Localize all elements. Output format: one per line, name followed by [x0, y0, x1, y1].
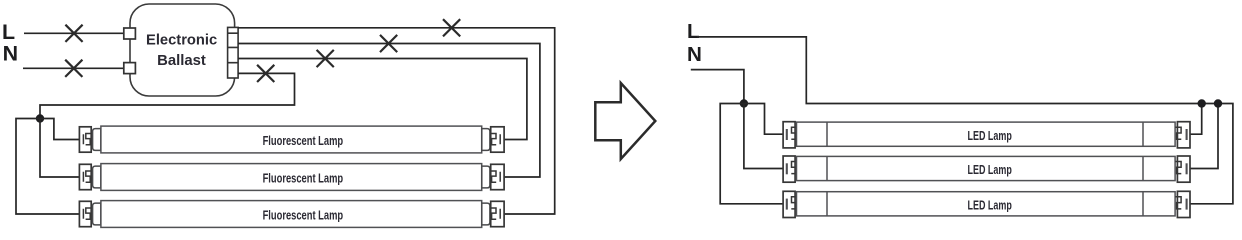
svg-text:L: L [2, 20, 15, 44]
LED lamp1 tube [797, 122, 1176, 146]
LED lamp3 left socket [783, 191, 795, 217]
lamp1 tube [101, 126, 482, 153]
svg-text:Ballast: Ballast [157, 53, 206, 69]
conversion arrow [595, 83, 655, 159]
wire L to ballast [24, 32, 124, 34]
LED lamp 2 [783, 156, 1190, 182]
wire ballast pin4 down and left to junction [40, 73, 295, 118]
wire N bus to LED lamp3 left socket [720, 104, 783, 204]
LED lamp1 left socket [783, 122, 795, 148]
wire junction to lamp2 left socket [40, 119, 79, 178]
lamp3 left socket [79, 201, 91, 226]
lamp2 left socket [79, 164, 91, 189]
ballast U1 (Electronic Ballast box) [130, 4, 235, 96]
wire N bus to LED lamp2 left socket [744, 104, 783, 169]
svg-text:N: N [3, 42, 18, 66]
lamp1 left socket [79, 127, 91, 152]
svg-text:LED Lamp: LED Lamp [968, 198, 1012, 213]
fluorescent lamp 2 [79, 164, 504, 191]
ballast label text [146, 33, 217, 70]
ballast input pin N [124, 63, 136, 74]
svg-text:Electronic: Electronic [146, 33, 217, 49]
cut mark X on pin1 wire [443, 19, 460, 36]
wire junction to lamp1 left socket [40, 119, 79, 140]
lamp3 right socket [491, 201, 504, 226]
junction node dot (N bus) [740, 99, 748, 107]
junction node dot lamp1/L bus [1198, 99, 1206, 107]
lamp3 tube [101, 201, 482, 228]
LED lamp2 right socket [1177, 156, 1190, 182]
LED lamp1 left cap line [826, 122, 828, 146]
junction node dot lamp2/L bus [1214, 99, 1222, 107]
wire L line to LED lamp3 right socket [697, 37, 1233, 204]
LED lamp1 right cap line [1142, 122, 1144, 146]
ballast input pin L [124, 28, 136, 39]
LED lamp2 tube [797, 156, 1176, 180]
wire ballast pin3 to lamp1 right socket [238, 59, 527, 140]
lamp2 tube [101, 164, 482, 191]
LED lamp2 left cap line [826, 156, 828, 180]
ballast output pin block (4 pins) [228, 27, 239, 78]
svg-text:N: N [687, 43, 702, 66]
LED lamp2 left socket [783, 156, 795, 182]
LED lamp3 right socket [1177, 191, 1190, 217]
wire ballast pin1 to lamp3 right socket [238, 28, 555, 214]
wire ballast pin2 to lamp2 right socket [238, 44, 540, 178]
wire N line down to junction [691, 70, 744, 104]
cut mark X on pin2 wire [380, 35, 397, 52]
LED lamp3 right cap line [1142, 192, 1144, 216]
LED lamp 1 [783, 122, 1190, 148]
lamp1 right socket [491, 127, 504, 152]
junction node dot (left diagram) [36, 114, 44, 122]
lamp1 left end cap [93, 129, 101, 151]
LED lamp 3 [783, 191, 1190, 217]
cut mark X on L wire [65, 25, 82, 42]
lamp2 right socket [491, 164, 504, 189]
cut mark X on pin4 wire [257, 65, 274, 82]
wire junction to lamp3 left socket [16, 119, 79, 215]
lamp2 right end cap [482, 166, 490, 188]
svg-text:LED Lamp: LED Lamp [968, 128, 1012, 143]
wire N to ballast [23, 67, 124, 69]
svg-text:Fluorescent Lamp: Fluorescent Lamp [263, 208, 344, 223]
fluorescent lamp 3 [79, 201, 504, 228]
LED lamp2 right cap line [1142, 156, 1144, 180]
wire LED lamp1 right socket up to L bus [1190, 104, 1202, 135]
lamp3 right end cap [482, 203, 490, 225]
svg-text:Fluorescent Lamp: Fluorescent Lamp [263, 171, 344, 186]
fluorescent lamp 1 [79, 126, 504, 153]
lamp2 left end cap [93, 166, 101, 188]
wire LED lamp2 right socket up to L bus [1190, 104, 1218, 169]
lamp3 left end cap [93, 203, 101, 225]
svg-text:Fluorescent Lamp: Fluorescent Lamp [263, 133, 344, 148]
lamp1 right end cap [482, 129, 490, 151]
LED lamp3 left cap line [826, 192, 828, 216]
svg-text:LED Lamp: LED Lamp [968, 162, 1012, 177]
LED lamp3 tube [797, 192, 1176, 216]
svg-text:L: L [687, 20, 700, 43]
cut mark X on N wire [65, 60, 82, 77]
cut mark X on pin3 wire [317, 50, 334, 67]
LED lamp1 right socket [1177, 122, 1190, 148]
wire N bus to LED lamp1 left socket [744, 104, 783, 135]
